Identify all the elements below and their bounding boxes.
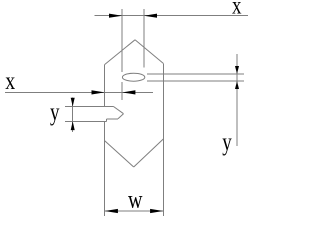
svg-text:w: w [128, 187, 143, 214]
arrowhead right y pointing up [235, 81, 239, 89]
crystal blank right edge and w extension [162, 63, 164, 216]
arrowhead right y pointing down [235, 66, 239, 74]
dimension x top left extension line upper part [121, 9, 123, 72]
dimension y right lower tangent line [147, 80, 244, 82]
arrowhead top x right pointing left [144, 14, 157, 18]
svg-text:y: y [50, 99, 60, 126]
crystal blank outline right slope [135, 40, 163, 64]
hole ellipse [122, 73, 144, 81]
mounting tab slot step [105, 119, 107, 122]
dimension x top line [94, 15, 248, 17]
arrowhead left y pointing up [71, 121, 75, 130]
svg-text:x: x [232, 0, 242, 19]
crystal blank outline left slope [105, 40, 135, 65]
arrowhead w pointing left [105, 209, 118, 213]
dimension y right vertical line [236, 54, 238, 146]
bottom V notch left line [105, 141, 134, 167]
arrowhead w pointing right [150, 209, 163, 213]
crystal blank left edge upper segment [104, 65, 106, 107]
dimension x top right extension line [143, 9, 145, 67]
dimension w bottom line [105, 210, 164, 212]
dimension y left vertical line [72, 98, 74, 133]
dimension x top left extension line lower part [121, 82, 123, 100]
dimension y right upper tangent line [147, 73, 244, 75]
mounting tab slot top edge [65, 106, 114, 108]
mounting tab slot inner bottom edge [106, 118, 118, 120]
mounting tab slot lower chamfer [118, 114, 124, 119]
svg-text:y: y [222, 129, 232, 156]
mounting tab slot outer bottom edge [65, 120, 106, 122]
arrowhead top x left pointing right [109, 14, 122, 18]
arrowhead left y pointing down [71, 98, 75, 107]
mounting tab slot upper chamfer [114, 107, 124, 114]
bottom V notch right line [134, 139, 164, 167]
dimension x left line [5, 91, 153, 93]
crystal blank left edge lower segment and w extension [104, 121, 106, 216]
svg-text:x: x [5, 68, 15, 95]
arrowhead left x pointing left [122, 90, 135, 94]
arrowhead left x pointing right [92, 90, 105, 94]
